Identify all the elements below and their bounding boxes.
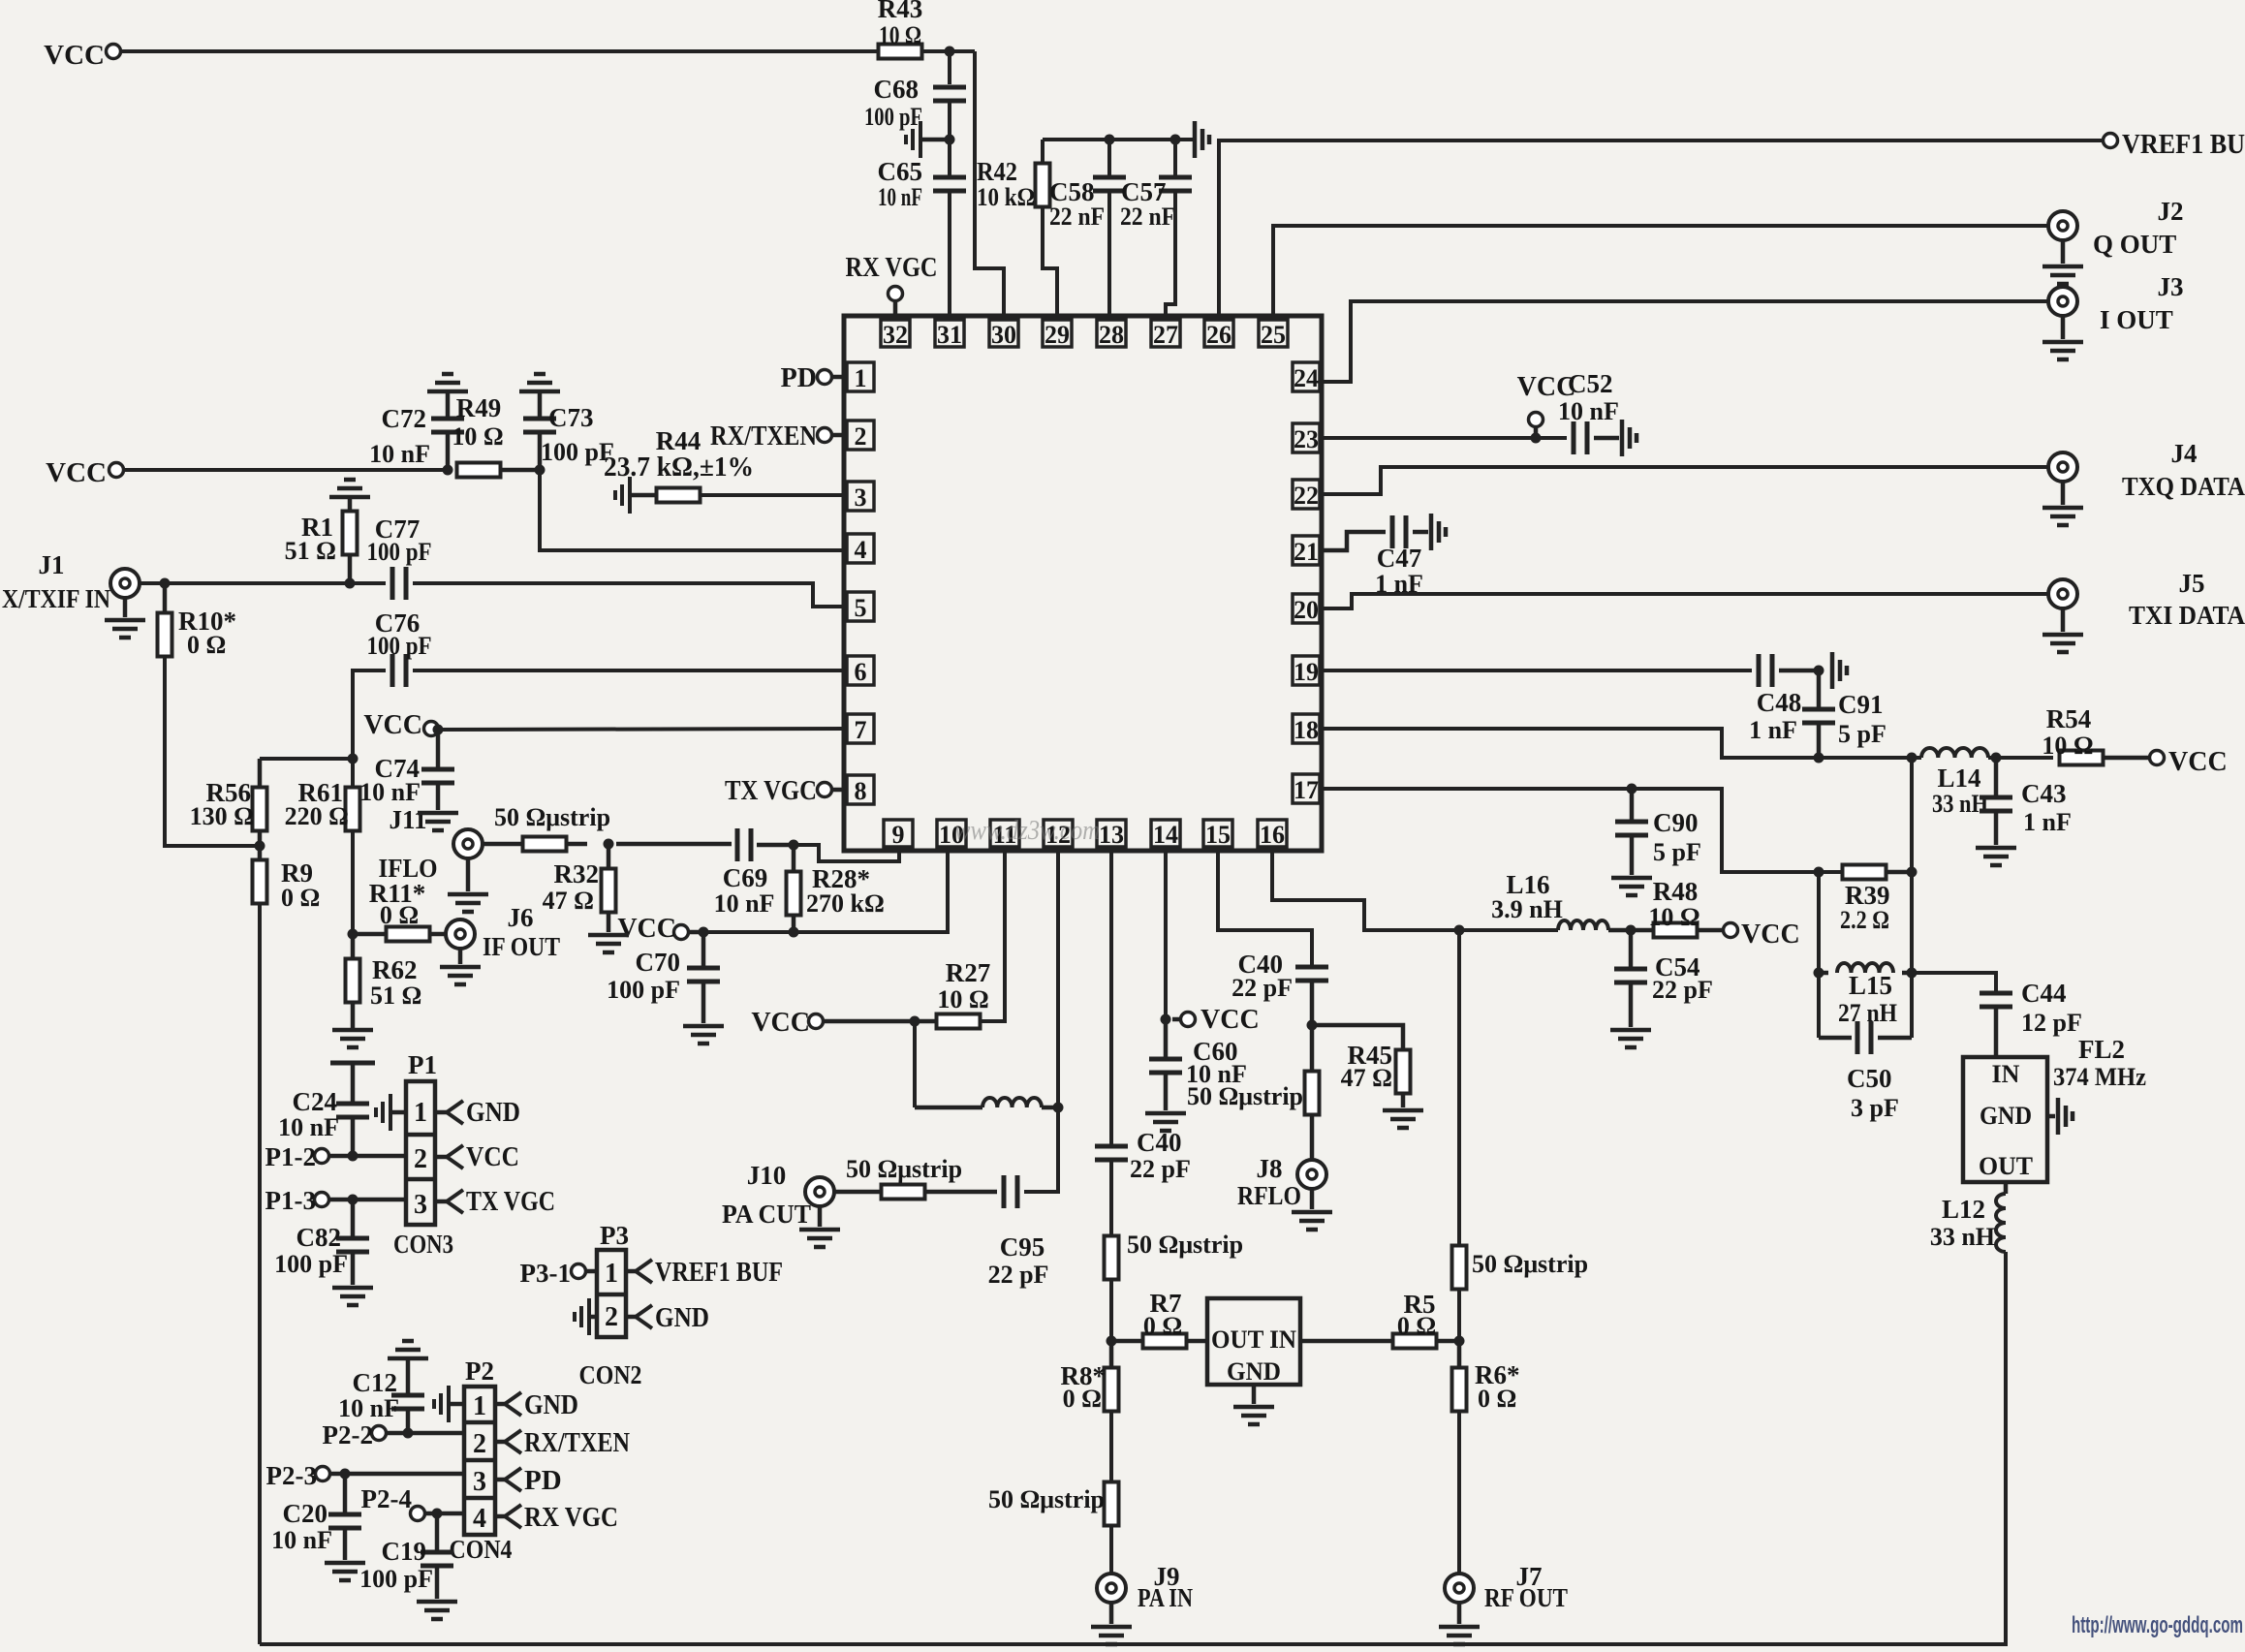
svg-text:RX/TXEN: RX/TXEN <box>710 421 817 452</box>
pin P3-1 VREF1 BUF <box>626 1269 636 1274</box>
svg-text:P1-3: P1-3 <box>265 1186 316 1215</box>
resistor R42 10 k <box>1041 140 1045 164</box>
svg-text:30: 30 <box>991 321 1016 349</box>
node junction C12/P2-2 <box>403 1428 414 1439</box>
svg-text:Q OUT: Q OUT <box>2093 230 2176 259</box>
wire pin 10 down <box>703 851 948 932</box>
capacitor C44 12 pF <box>1980 993 2012 1007</box>
svg-text:100 pF: 100 pF <box>607 976 680 1004</box>
pin 25 box <box>1259 320 1288 347</box>
wire C52 to ground <box>1594 436 1619 441</box>
capacitor C43 1 nF <box>1994 758 1999 797</box>
svg-text:0 Ω: 0 Ω <box>1397 1312 1436 1340</box>
pin 19 box <box>1293 656 1320 685</box>
pin 12 box <box>1044 820 1073 847</box>
wire pin 26 to VREF1 BU <box>1219 140 2103 316</box>
coax jack J5 TXI DATA <box>2048 579 2077 608</box>
ground (C60) <box>1145 1113 1186 1131</box>
capacitor C95 22 pF <box>1004 1175 1017 1208</box>
svg-text:7: 7 <box>855 716 867 744</box>
wire R43 to junction <box>921 49 975 53</box>
resistor R7 0 ohm <box>1111 1339 1143 1344</box>
node junction L16/C54 <box>1626 925 1637 936</box>
svg-text:23: 23 <box>1294 425 1319 453</box>
coax jack J10 PA CUT <box>805 1177 834 1206</box>
ground (C20) <box>325 1563 365 1580</box>
svg-text:51 Ω: 51 Ω <box>285 537 336 565</box>
wire C69 to junction <box>757 843 794 848</box>
wire C19 to ground <box>435 1566 440 1599</box>
svg-text:C47: C47 <box>1377 544 1422 573</box>
node junction L14/C43 <box>1991 753 2002 764</box>
pin 13 box <box>1097 820 1126 847</box>
svg-text:P2-4: P2-4 <box>361 1484 412 1513</box>
capacitor C58 22 nF <box>1107 140 1111 177</box>
wire RX VGC to pin 32 <box>893 300 898 316</box>
node junction R56/R61 <box>348 754 359 764</box>
svg-text:PD: PD <box>524 1465 562 1496</box>
svg-text:OUT IN: OUT IN <box>1211 1325 1296 1354</box>
wire L12 to bottom rail <box>260 1252 2006 1644</box>
wire pin 14 down <box>1164 851 1168 1019</box>
ground (J1) <box>123 599 128 617</box>
wire R45 to ground <box>1401 1093 1406 1107</box>
svg-text:R43: R43 <box>878 0 923 23</box>
ground (FL2 GND) <box>2047 1114 2055 1119</box>
wire L14 to R54 <box>1988 756 2053 760</box>
ground (C90) <box>1611 878 1652 895</box>
svg-text:TXI DATA: TXI DATA <box>2129 601 2245 630</box>
capacitor C40 22 pF (RFLO) <box>1295 967 1328 981</box>
svg-text:10 Ω: 10 Ω <box>1648 903 1699 931</box>
terminal VCC (R27) <box>809 1014 824 1029</box>
pin 31 box <box>935 320 964 347</box>
coax jack J2 Q OUT <box>2048 211 2077 240</box>
capacitor C24 10 nF <box>351 1063 356 1104</box>
svg-text:VCC: VCC <box>1741 920 1800 950</box>
svg-text:6: 6 <box>855 658 867 686</box>
pin P1-3 TX VGC <box>435 1200 447 1204</box>
wire pin 12 to C95 <box>1024 1107 1058 1192</box>
wire R9 to bottom rail <box>258 903 262 1644</box>
node junction R32 <box>604 839 614 850</box>
svg-text:VCC: VCC <box>44 40 105 71</box>
resistor R44 23.7 k <box>631 493 657 498</box>
ground (R44) <box>615 477 630 514</box>
wire strip to J10 <box>827 1190 881 1195</box>
svg-text:47 Ω: 47 Ω <box>543 887 594 915</box>
node junction pin17/C90 <box>1627 784 1637 795</box>
node junction C70 <box>699 927 709 938</box>
svg-text:R54: R54 <box>2046 704 2092 733</box>
svg-text:PA IN: PA IN <box>1138 1583 1193 1612</box>
svg-text:15: 15 <box>1205 821 1231 849</box>
resistor R49 10 ohm <box>457 463 501 478</box>
wire R6 to J7 <box>1457 1411 1461 1574</box>
pin 18 box <box>1293 714 1320 743</box>
svg-text:26: 26 <box>1206 321 1232 349</box>
wire junction to pin 30 <box>975 51 1004 316</box>
wire C90 to ground <box>1630 835 1635 875</box>
capacitor C70 100 pF <box>702 932 706 968</box>
svg-text:CON4: CON4 <box>450 1535 513 1564</box>
capacitor C76 100 pF <box>392 654 406 687</box>
svg-text:R48: R48 <box>1653 877 1699 906</box>
resistor R27 10 ohm <box>937 1014 981 1029</box>
node junction C19/P2-4 <box>432 1509 443 1519</box>
pin 3 box <box>847 482 874 511</box>
svg-text:2: 2 <box>473 1429 486 1459</box>
svg-text:27 nH: 27 nH <box>1838 999 1897 1027</box>
wire R42 to pin 29 <box>1043 206 1057 316</box>
ground (C74) <box>418 813 458 830</box>
wire VCC to R27 <box>824 1019 938 1024</box>
node junction rail/C58 <box>1105 135 1115 145</box>
pin 11 box <box>990 820 1019 847</box>
svg-text:27: 27 <box>1153 321 1178 349</box>
svg-text:VREF1 BU: VREF1 BU <box>2122 130 2245 160</box>
svg-text:1 nF: 1 nF <box>1749 716 1797 744</box>
svg-text:R32: R32 <box>554 859 600 888</box>
pin 7 box <box>847 714 874 743</box>
pin 10 box <box>937 820 966 847</box>
terminal VCC (R48) <box>1724 923 1738 938</box>
wire R44 to pin 3 <box>701 493 845 497</box>
wire R48 to VCC <box>1698 928 1723 933</box>
coax jack J9 PA IN <box>1097 1574 1126 1603</box>
svg-text:C44: C44 <box>2021 979 2067 1008</box>
pin 2 box <box>847 421 874 450</box>
capacitor C40 22 pF (PA) <box>1095 1146 1128 1160</box>
ground (C70) <box>683 1026 724 1044</box>
svg-text:RX VGC: RX VGC <box>846 253 938 283</box>
wire pin 16 to L16 <box>1272 851 1558 930</box>
wire coil up to R27 net <box>913 1021 917 1107</box>
capacitor C50 3 pF <box>1819 1036 1852 1041</box>
svg-text:P2-3: P2-3 <box>266 1461 317 1490</box>
svg-text:22 pF: 22 pF <box>1232 974 1293 1002</box>
inductor L15 27 nH <box>1819 971 1828 976</box>
svg-text:12 pF: 12 pF <box>2021 1009 2082 1037</box>
svg-text:19: 19 <box>1294 658 1319 686</box>
node junction C91/pin18 wire <box>1814 753 1824 764</box>
wire pin 12 down <box>1056 851 1060 1107</box>
capacitor C20 10 nF <box>343 1474 348 1514</box>
svg-text:24: 24 <box>1294 364 1319 392</box>
svg-text:C91: C91 <box>1838 690 1884 719</box>
capacitor C74 10 nF <box>436 730 441 769</box>
svg-text:4: 4 <box>855 536 867 564</box>
svg-text:1: 1 <box>855 364 867 392</box>
wire VCC to pin 7 <box>438 729 845 730</box>
coax jack J1 RX/TXIF IN <box>110 569 140 598</box>
svg-text:L15: L15 <box>1849 971 1892 1000</box>
svg-text:RFLO: RFLO <box>1237 1181 1301 1210</box>
capacitor C73 100 pF <box>538 391 543 419</box>
inductor (pin 12 feed) <box>915 1106 982 1110</box>
svg-text:10 Ω: 10 Ω <box>937 985 988 1013</box>
terminal P2-3 <box>316 1467 330 1481</box>
svg-text:5: 5 <box>855 594 867 622</box>
svg-text:C19: C19 <box>382 1537 427 1566</box>
wire strip to J9 <box>1109 1525 1113 1574</box>
inductor L14 33 nH <box>1921 748 1988 758</box>
wire R62 to ground <box>351 1002 356 1028</box>
svg-text:1 nF: 1 nF <box>2023 808 2072 836</box>
node junction C73 <box>535 465 546 476</box>
svg-text:GND: GND <box>466 1097 520 1128</box>
svg-text:P1: P1 <box>408 1050 437 1079</box>
wire strip to R7 junction <box>1109 1279 1113 1341</box>
pin 24 box <box>1293 362 1320 391</box>
coax jack J11 IFLO <box>453 829 483 858</box>
coax jack J6 IF OUT <box>446 920 475 949</box>
wire C82 to ground <box>351 1252 356 1285</box>
svg-text:IN: IN <box>1992 1060 2020 1088</box>
terminal VCC (C74) <box>424 722 439 736</box>
svg-text:100 pF: 100 pF <box>359 1565 433 1593</box>
capacitor C52 10 nF <box>1574 421 1587 454</box>
wire C95 to strip <box>923 1190 997 1195</box>
ground above R1 <box>329 480 370 497</box>
pin 6 box <box>847 656 874 685</box>
svg-text:17: 17 <box>1294 776 1319 804</box>
ground (C52) <box>1622 420 1637 456</box>
ground (J10) <box>818 1207 823 1227</box>
pin P2-3 PD <box>495 1478 505 1482</box>
wire junction to R56 <box>260 757 353 761</box>
svg-text:CON3: CON3 <box>393 1230 453 1259</box>
node junction rail/C57 <box>1170 135 1181 145</box>
wire R39 right <box>1886 870 1912 875</box>
wire C54 to ground <box>1629 982 1634 1027</box>
ground above C73 <box>519 374 560 391</box>
svg-text:TXQ DATA: TXQ DATA <box>2122 472 2245 501</box>
svg-text:C48: C48 <box>1757 688 1802 717</box>
terminal TX VGC (pin 8) <box>818 783 832 797</box>
wide bar below ground <box>330 1061 375 1066</box>
svg-text:P1-2: P1-2 <box>265 1142 316 1171</box>
pin 27 box <box>1151 320 1180 347</box>
pin 26 box <box>1204 320 1233 347</box>
wire C70 to ground <box>702 982 706 1023</box>
svg-text:2: 2 <box>414 1144 427 1174</box>
svg-text:C72: C72 <box>382 404 427 433</box>
svg-text:OUT: OUT <box>1979 1152 2033 1180</box>
svg-text:20: 20 <box>1294 596 1319 624</box>
pin 23 box <box>1293 423 1320 452</box>
ground (C82) <box>332 1288 373 1305</box>
resistor R6* 0 ohm <box>1457 1341 1462 1368</box>
resistor R5 0 ohm <box>1300 1339 1395 1344</box>
wire L15 to C44 <box>1912 973 1996 993</box>
wire pin 18 to L14/R54 <box>1322 729 1921 758</box>
node junction C48/C91 <box>1814 666 1824 676</box>
node junction C82/P1-3 <box>348 1195 359 1205</box>
svg-text:PA CUT: PA CUT <box>722 1200 811 1229</box>
svg-text:28: 28 <box>1099 321 1124 349</box>
capacitor C90 5 pF <box>1630 789 1635 822</box>
wire C43 to ground <box>1994 811 1999 845</box>
ground above C72 <box>427 374 468 391</box>
capacitor C72 10 nF <box>446 391 451 419</box>
wire C24 to P1-2 junction <box>351 1117 356 1156</box>
ground (J4) <box>2061 483 2066 505</box>
ground (C48/C91) <box>1832 652 1847 689</box>
svg-text:10 Ω: 10 Ω <box>879 21 921 49</box>
node junction C24/P1-2 <box>348 1151 359 1162</box>
microstrip 50 ohm (IFLO) <box>523 837 567 852</box>
svg-text:9: 9 <box>892 821 905 849</box>
wire L16 to R48 <box>1608 928 1655 933</box>
terminal P1-3 <box>315 1193 329 1207</box>
microstrip 50 ohm (PA in) <box>1105 1482 1119 1526</box>
svg-text:51 Ω: 51 Ω <box>370 982 421 1010</box>
wire strip to J8 <box>1310 1114 1315 1159</box>
ground (top rail) <box>1195 121 1209 158</box>
svg-text:0 Ω: 0 Ω <box>380 901 419 929</box>
svg-text:J8: J8 <box>1257 1154 1283 1183</box>
svg-text:R42: R42 <box>977 157 1017 186</box>
terminal P1-2 <box>315 1149 329 1164</box>
pin 9 box <box>884 820 913 847</box>
wire R27 to pin 11 <box>981 851 1005 1021</box>
svg-text:CON2: CON2 <box>579 1360 642 1389</box>
svg-text:50 Ωμstrip: 50 Ωμstrip <box>846 1155 962 1183</box>
svg-text:VREF1 BUF: VREF1 BUF <box>655 1257 783 1288</box>
svg-text:0 Ω: 0 Ω <box>1143 1312 1182 1340</box>
resistor R56 130 ohm <box>258 759 263 788</box>
node junction C74 <box>433 725 444 735</box>
svg-text:18: 18 <box>1294 716 1319 744</box>
wire C57 to pin 27 <box>1166 191 1175 316</box>
capacitor C69 10 nF <box>737 828 751 861</box>
wire P2-4 to P2 <box>425 1512 464 1516</box>
wire R54 to VCC <box>2104 756 2149 761</box>
wire pin 25 to J2 <box>1273 226 2047 316</box>
ground (P3 pin2) <box>589 1315 597 1320</box>
wire C58 to pin 28 <box>1107 191 1111 316</box>
coax jack J8 RFLO <box>1297 1160 1326 1189</box>
coax jack J4 TXQ DATA <box>2048 452 2077 482</box>
svg-text:R44: R44 <box>656 426 702 455</box>
svg-text:0 Ω: 0 Ω <box>281 884 320 912</box>
svg-text:14: 14 <box>1153 821 1178 849</box>
node junction pin14/VCC/C60 <box>1161 1014 1171 1025</box>
pin 28 box <box>1097 320 1126 347</box>
svg-text:22 pF: 22 pF <box>1130 1155 1191 1183</box>
capacitor C19 100 pF <box>435 1513 440 1552</box>
microstrip 50 ohm (RFLO) <box>1310 1025 1315 1072</box>
wire C60 to ground <box>1164 1073 1169 1110</box>
wire P2-2 to P2 <box>387 1431 464 1436</box>
resistor R54 10 ohm <box>2060 751 2104 765</box>
terminal VCC (R54) <box>2150 751 2165 765</box>
svg-text:VCC: VCC <box>751 1008 810 1038</box>
svg-text:C70: C70 <box>636 948 681 977</box>
terminal VCC (2nd row) <box>109 463 124 478</box>
resistor R39 2.2 ohm <box>1843 865 1886 880</box>
svg-text:C24: C24 <box>293 1087 338 1116</box>
svg-text:100 pF: 100 pF <box>367 538 432 566</box>
svg-text:C69: C69 <box>723 863 768 892</box>
terminal VREF1 BU <box>2104 134 2118 148</box>
svg-text:http://www.go-gddq.com: http://www.go-gddq.com <box>2072 1612 2243 1638</box>
ground (C54) <box>1610 1030 1651 1047</box>
wire C47 to ground <box>1413 530 1428 535</box>
svg-text:RX/TXEN: RX/TXEN <box>524 1427 630 1458</box>
svg-text:X/TXIF IN: X/TXIF IN <box>2 584 110 613</box>
IC U1 body (32-pin) <box>844 316 1322 851</box>
resistor R1 51 ohm <box>348 497 353 512</box>
svg-text:GND: GND <box>1980 1102 2032 1130</box>
svg-text:50 Ωμstrip: 50 Ωμstrip <box>988 1485 1105 1513</box>
capacitor C12 10 nF <box>406 1358 411 1395</box>
resistor R11* 0 ohm <box>353 932 387 937</box>
svg-text:C20: C20 <box>283 1499 328 1528</box>
pin 8 box <box>847 775 874 804</box>
wire pin 24 to J3 <box>1322 301 2047 382</box>
svg-text:GND: GND <box>524 1389 578 1420</box>
svg-text:J5: J5 <box>2179 569 2205 598</box>
svg-text:1: 1 <box>473 1391 486 1421</box>
inductor L12 33 nH <box>2004 1182 2009 1194</box>
wire R8 to strip <box>1109 1411 1113 1482</box>
wire pin 15 to C40 <box>1218 851 1312 967</box>
svg-text:22: 22 <box>1294 482 1319 510</box>
ground (P1 pin1) <box>390 1110 406 1115</box>
svg-text:32: 32 <box>883 321 908 349</box>
svg-text:22 nF: 22 nF <box>1120 203 1175 231</box>
svg-text:VCC: VCC <box>617 914 676 944</box>
microstrip 50 ohm (PA top) <box>1105 1236 1119 1280</box>
microstrip 50 ohm (RF out top) <box>1452 1246 1467 1290</box>
resistor R45 47 ohm <box>1312 1025 1403 1050</box>
amplifier OUT IN GND box <box>1207 1298 1300 1385</box>
pin 22 box <box>1293 480 1320 509</box>
svg-text:100 pF: 100 pF <box>274 1250 348 1278</box>
pin P2-1 GND <box>495 1402 505 1407</box>
wire J1 to C77 to pin 5 <box>140 581 386 585</box>
svg-text:4: 4 <box>473 1504 486 1534</box>
svg-text:VCC: VCC <box>2168 747 2228 777</box>
pin 16 box <box>1258 820 1287 847</box>
resistor R61 220 ohm <box>346 788 360 831</box>
ground (C68/C65 tap) <box>922 138 950 142</box>
svg-text:C90: C90 <box>1653 808 1699 837</box>
terminal VCC (C70) <box>674 925 689 940</box>
svg-text:3: 3 <box>855 483 867 512</box>
svg-text:VCC: VCC <box>466 1141 519 1172</box>
svg-text:10 nF: 10 nF <box>878 183 922 211</box>
svg-text:C73: C73 <box>548 403 594 432</box>
svg-text:P2: P2 <box>465 1356 494 1386</box>
svg-text:220 Ω: 220 Ω <box>285 802 349 830</box>
svg-text:1: 1 <box>414 1098 427 1128</box>
wire C40 to junction <box>1310 981 1315 1025</box>
svg-text:C40: C40 <box>1137 1128 1182 1157</box>
svg-text:10 nF: 10 nF <box>1558 397 1619 425</box>
wire VCC row 2 <box>124 468 448 472</box>
capacitor C57 22 nF <box>1173 140 1177 177</box>
capacitor C77 100 pF <box>392 567 406 600</box>
svg-text:10 Ω: 10 Ω <box>452 422 503 451</box>
microstrip 50 ohm (PA CUT) <box>882 1185 925 1200</box>
svg-text:C65: C65 <box>878 157 923 186</box>
svg-text:100 pF: 100 pF <box>367 632 432 660</box>
svg-text:C12: C12 <box>353 1368 398 1397</box>
ground (J9) <box>1109 1604 1114 1624</box>
